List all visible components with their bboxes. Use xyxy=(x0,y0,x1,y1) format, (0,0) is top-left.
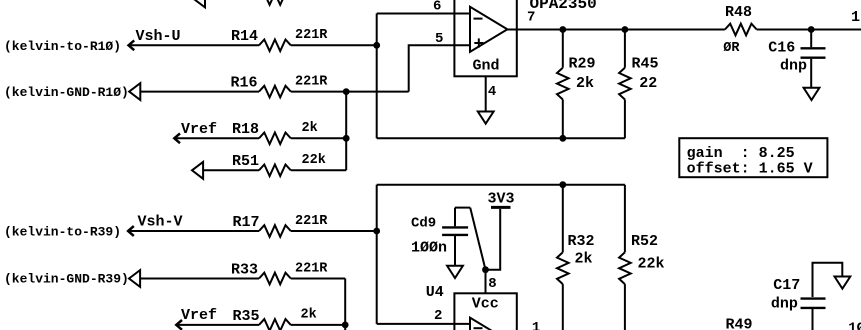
junction node output R45 xyxy=(622,26,629,33)
svg-text:(kelvin-to-R1Ø): (kelvin-to-R1Ø) xyxy=(4,39,121,54)
ground symbol pin 4 xyxy=(478,112,494,124)
resistor R18 xyxy=(259,133,291,145)
resistor R48 xyxy=(725,24,757,36)
svg-text:2k: 2k xyxy=(302,121,318,136)
wire R17 to node xyxy=(291,230,377,232)
wire Cd9 top link xyxy=(455,207,470,209)
svg-text:3V3: 3V3 xyxy=(488,190,515,207)
svg-text:Vsh-U: Vsh-U xyxy=(136,28,181,45)
svg-text:Vref: Vref xyxy=(181,307,217,324)
svg-text:8: 8 xyxy=(488,276,496,292)
resistor R29 xyxy=(562,30,564,68)
resistor R35 xyxy=(259,319,291,330)
svg-text:Vref: Vref xyxy=(181,121,217,138)
junction node minus-2 xyxy=(373,228,380,235)
wire minus-2 vertical xyxy=(376,185,378,324)
junction node R29 bottom xyxy=(559,135,566,142)
svg-text:R35: R35 xyxy=(233,308,260,325)
wire output to R48 xyxy=(507,29,725,31)
wire pin 6 xyxy=(377,13,470,15)
wire pin 2 xyxy=(377,323,470,325)
resistor R52 xyxy=(624,185,626,253)
svg-text:Vcc: Vcc xyxy=(472,296,499,313)
op-amp U? box (top half, cut) xyxy=(454,0,516,76)
wire riser to pin 5 xyxy=(409,45,470,91)
svg-text:R17: R17 xyxy=(233,214,260,231)
resistor R16 xyxy=(259,86,291,98)
svg-text:22k: 22k xyxy=(638,255,665,272)
resistor R14 xyxy=(259,40,291,52)
wire C16 to ground xyxy=(810,59,812,88)
svg-text:offset: 1.65 V: offset: 1.65 V xyxy=(687,161,813,178)
svg-text:R45: R45 xyxy=(632,55,659,72)
wire R16 to riser xyxy=(291,91,409,93)
svg-text:(kelvin-GND-R39): (kelvin-GND-R39) xyxy=(4,272,129,287)
svg-text:2: 2 xyxy=(434,308,442,324)
wire Vref chain vertical xyxy=(345,92,347,171)
capacitor Cd9 xyxy=(454,208,456,227)
capacitor C16 xyxy=(810,30,812,48)
wire R18 to node xyxy=(291,137,346,139)
minus input symbol xyxy=(474,18,483,20)
op-amp U4 triangle xyxy=(470,318,507,330)
power symbol 3V3 xyxy=(491,206,511,209)
svg-text:R49: R49 xyxy=(726,316,753,330)
resistor R32 xyxy=(562,185,564,253)
junction node plus-1 xyxy=(343,88,350,95)
resistor (cut off at top) xyxy=(259,0,291,5)
svg-text:221R: 221R xyxy=(295,261,328,276)
junction node R32 top xyxy=(559,181,566,188)
svg-text:4: 4 xyxy=(488,84,496,100)
svg-text:1Ø: 1Ø xyxy=(848,320,861,330)
svg-text:1ØØn: 1ØØn xyxy=(411,239,447,256)
wire R48 to C16 node xyxy=(757,29,861,31)
wire R33 to corner xyxy=(291,278,345,280)
wire C17 down (cut) xyxy=(812,309,814,330)
open arrow Vref xyxy=(174,133,180,143)
resistor R45 xyxy=(624,30,626,68)
wire Vsh-U xyxy=(129,44,259,46)
svg-text:1: 1 xyxy=(532,320,540,330)
hollow arrow kelvin-GND-R10 xyxy=(129,83,140,100)
svg-text:2k: 2k xyxy=(575,250,593,267)
junction node pin 8 xyxy=(482,266,489,273)
wire feedback rail xyxy=(377,137,625,139)
svg-text:R52: R52 xyxy=(631,233,658,250)
svg-text:(kelvin-to-R39): (kelvin-to-R39) xyxy=(4,224,121,239)
svg-text:221R: 221R xyxy=(295,28,328,43)
svg-text:dnp: dnp xyxy=(780,58,807,75)
svg-text:11: 11 xyxy=(851,9,861,26)
svg-text:R48: R48 xyxy=(725,4,752,21)
svg-text:5: 5 xyxy=(435,31,443,47)
resistor R51 xyxy=(259,165,291,177)
junction node minus-1 xyxy=(373,42,380,49)
svg-text:(kelvin-GND-R1Ø): (kelvin-GND-R1Ø) xyxy=(4,85,129,100)
hollow arrow R51 xyxy=(192,162,203,179)
hollow arrow kelvin-GND-R39 xyxy=(129,270,140,287)
wire R51 to corner xyxy=(291,169,346,171)
junction node output R29 xyxy=(559,26,566,33)
svg-text:Gnd: Gnd xyxy=(473,57,500,74)
pin 4 wire xyxy=(485,76,487,111)
ground symbol C16 xyxy=(804,88,820,100)
svg-text:gain : 8.25: gain : 8.25 xyxy=(687,145,795,162)
junction node Vref divider xyxy=(343,135,350,142)
svg-text:221R: 221R xyxy=(295,214,328,229)
wire R35 to node xyxy=(291,324,345,326)
minus input symbol U4 xyxy=(474,327,483,329)
junction node R35 xyxy=(342,322,349,329)
svg-text:U4: U4 xyxy=(426,284,444,301)
resistor R33 xyxy=(259,273,291,285)
wire R33 chain vertical xyxy=(344,279,346,330)
capacitor C17 xyxy=(801,297,826,299)
svg-text:ØR: ØR xyxy=(723,41,740,56)
svg-text:R51: R51 xyxy=(232,153,259,170)
wire R14 to node xyxy=(291,44,377,46)
wire Vref xyxy=(175,137,259,139)
svg-text:C17: C17 xyxy=(773,277,800,294)
svg-text:22k: 22k xyxy=(302,153,326,168)
wire R51 left xyxy=(203,169,259,171)
op-amp U4 box (bottom half, cut) xyxy=(454,293,516,330)
wire top rail section 2 xyxy=(377,184,625,186)
svg-text:7: 7 xyxy=(527,9,535,25)
open arrow kelvin-to-R39 xyxy=(128,226,134,236)
svg-text:Vsh-V: Vsh-V xyxy=(138,213,183,230)
ground symbol C17 xyxy=(835,277,851,289)
svg-text:Cd9: Cd9 xyxy=(411,216,436,232)
ground symbol Cd9 xyxy=(447,266,463,278)
junction node C16 xyxy=(808,26,815,33)
op-amp triangle xyxy=(470,7,507,52)
wire R16 left xyxy=(140,91,259,93)
svg-text:OPA2350: OPA2350 xyxy=(530,0,597,13)
wire Vsh-V xyxy=(129,230,259,232)
svg-text:R16: R16 xyxy=(231,75,258,92)
svg-text:dnp: dnp xyxy=(771,295,798,312)
wire C17 to ground hook xyxy=(813,263,843,297)
svg-text:R14: R14 xyxy=(231,28,258,45)
wire R33 left xyxy=(140,278,259,280)
wire 3V3 to pin 8 xyxy=(486,209,501,270)
wire minus vertical xyxy=(376,14,378,139)
wire Vref 2 xyxy=(177,324,259,326)
note box gain/offset xyxy=(679,138,827,177)
svg-text:R32: R32 xyxy=(568,233,595,250)
open arrow kelvin-to-R10 xyxy=(129,40,135,50)
svg-text:C16: C16 xyxy=(768,40,795,57)
svg-text:2k: 2k xyxy=(576,75,594,92)
svg-text:22: 22 xyxy=(639,75,657,92)
svg-text:R29: R29 xyxy=(569,55,596,72)
plus input symbol xyxy=(474,42,483,44)
hollow arrow (cut off at top) xyxy=(194,0,205,7)
svg-text:2k: 2k xyxy=(301,307,317,322)
svg-text:R33: R33 xyxy=(231,261,258,278)
svg-text:221R: 221R xyxy=(295,75,328,90)
wire Cd9 to ground xyxy=(454,236,456,266)
svg-text:6: 6 xyxy=(433,0,441,15)
open arrow Vref 2 xyxy=(176,320,182,330)
pin 8 wire xyxy=(485,270,487,294)
svg-text:R18: R18 xyxy=(232,121,259,138)
resistor R17 xyxy=(259,225,291,237)
wire diagonal Cd9 to pin 8 xyxy=(470,208,485,270)
